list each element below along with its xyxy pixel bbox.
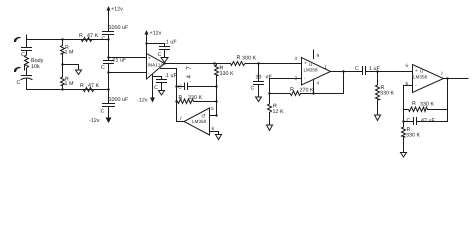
wire to U3 +input — [378, 71, 413, 73]
jack J1 — [14, 37, 21, 42]
op-amp U1 INA114 — [147, 54, 165, 80]
resistor R 330 K (U3 feedback) — [412, 101, 415, 105]
capacitor C 1000 uF (bottom rail) — [109, 97, 128, 101]
jack J2 tip tick — [24, 66, 26, 71]
resistor R 330 K (vertical on leg) — [215, 64, 219, 116]
node — [107, 56, 109, 58]
pin 6 — [212, 127, 214, 130]
resistor R 330 K (U3 to ground) — [402, 122, 406, 153]
potentiometer Body 10k — [25, 55, 29, 70]
ground — [216, 135, 222, 140]
ground — [76, 70, 82, 75]
node — [175, 85, 177, 87]
wire to U2 +input — [259, 63, 302, 65]
resistor R 270 K (feedback) — [290, 87, 293, 91]
node — [107, 71, 109, 73]
wire feedback U2 — [302, 72, 344, 94]
value label .47 (rotated, ref filter cap) — [186, 67, 190, 70]
node — [268, 92, 270, 94]
resistor R 1M (lower) — [61, 65, 65, 90]
pin 4 — [313, 79, 315, 93]
node main wire to leg — [213, 62, 215, 64]
pin 8 — [313, 50, 315, 59]
node — [446, 77, 448, 79]
ground — [161, 58, 168, 63]
node — [107, 38, 109, 40]
resistor R 12 K (to ground) — [268, 94, 272, 126]
node buffer input — [215, 114, 217, 116]
power +12v (top rail) — [107, 6, 111, 11]
ground — [267, 125, 273, 131]
capacitor C 1 uF (series) — [355, 66, 358, 70]
power -12v (bottom rail) — [106, 118, 112, 124]
resistor R 330 K (bias to ground) — [376, 72, 380, 116]
capacitor C (top input DC block) — [26, 40, 28, 48]
resistor R 47 K (top) — [79, 33, 82, 37]
pin 3 — [295, 57, 297, 60]
power -12v (U1) — [152, 74, 154, 98]
wire U1 output — [165, 63, 231, 65]
wire U2 output — [331, 71, 363, 73]
node bottom divider — [61, 88, 63, 90]
resistor R 1M (upper) — [61, 40, 65, 65]
pin 2 — [295, 76, 297, 79]
node — [107, 88, 109, 90]
node top divider — [61, 38, 63, 40]
op-amp U2 LM358 — [302, 58, 331, 86]
pin 1 — [324, 65, 326, 68]
resistor R 300 K (series) — [237, 55, 240, 59]
wire U3 -input leg — [404, 86, 413, 122]
node — [145, 42, 147, 44]
node mid divider — [61, 63, 63, 65]
jack J1 tip tick — [26, 35, 28, 40]
wire column — [108, 40, 110, 58]
capacitor C .1 uF (U1 V- bypass) — [153, 77, 162, 80]
jack J2 — [14, 67, 21, 72]
capacitor C 1000 uF (top rail) — [109, 25, 128, 29]
wire U2 -input — [270, 79, 302, 94]
pin 5 — [406, 64, 408, 67]
node — [402, 120, 404, 122]
capacitor C (ref filter) — [178, 85, 181, 89]
wire feedback right leg — [447, 79, 449, 122]
wire to U1 -input — [109, 72, 147, 74]
resistor R 330 K (ref filter) — [179, 95, 182, 99]
op-amp U LM358 (ref buffer, left-pointing) — [184, 108, 210, 135]
node — [257, 62, 259, 64]
capacitor C 33 nF — [258, 64, 260, 82]
wire top input — [27, 39, 109, 41]
wire to ground — [63, 65, 79, 71]
pin 7 — [441, 72, 443, 75]
pin 7 — [180, 117, 182, 120]
capacitor C 47 uF (U3 feedback) — [407, 118, 410, 122]
ground — [401, 153, 407, 158]
wire U3 output — [444, 78, 469, 80]
wire to U1 +input — [109, 57, 147, 59]
pin 5 — [211, 107, 213, 110]
wire column lower — [108, 73, 110, 90]
wire buffer -input to ground — [210, 132, 219, 135]
pin 6 — [406, 82, 408, 85]
node — [376, 70, 378, 72]
capacitor C .01 uF — [111, 58, 126, 62]
node — [342, 70, 344, 72]
wire U1 ref to buffer — [161, 69, 177, 122]
wire to buffer +input — [210, 115, 217, 117]
capacitor C (bottom input DC block) — [26, 70, 28, 76]
wire bottom input — [27, 89, 109, 91]
op-amp U3 LM358 — [413, 65, 444, 93]
capacitor C .1 uF (U1 V+ bypass) — [147, 44, 165, 47]
ground — [256, 97, 262, 102]
node — [175, 100, 177, 102]
resistor R 47 K (bottom) — [80, 83, 83, 87]
power +12v (U1) — [145, 30, 149, 35]
ground — [159, 91, 165, 96]
ground — [375, 115, 381, 121]
wire buffer output — [177, 121, 185, 123]
